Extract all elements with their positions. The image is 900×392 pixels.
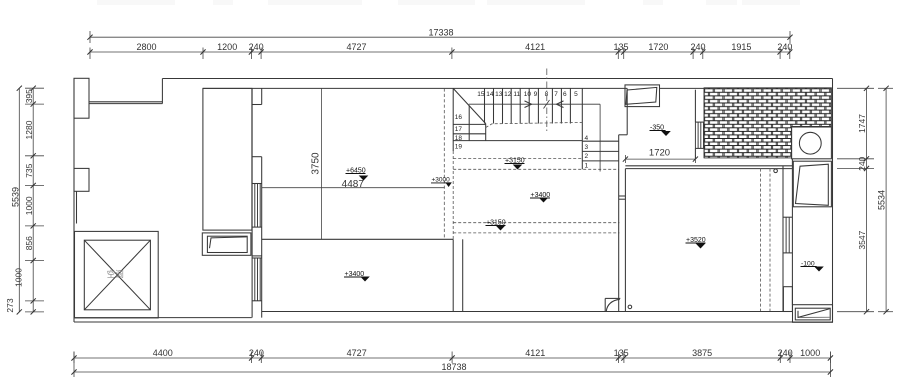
- svg-text:1720: 1720: [649, 148, 670, 159]
- dashed line hall 2: [453, 232, 619, 234]
- AC platform outer box: [75, 231, 159, 318]
- svg-text:4727: 4727: [347, 348, 367, 358]
- toilet window cap top: [695, 121, 703, 123]
- stair center dash-dot line: [546, 69, 548, 134]
- svg-text:18: 18: [455, 135, 463, 142]
- toilet window cap bottom: [695, 147, 703, 149]
- window box below closet outer: [202, 233, 251, 255]
- svg-text:1: 1: [585, 162, 589, 169]
- inner wall bottom left section: [74, 317, 252, 319]
- outer wall top: [162, 78, 832, 80]
- svg-text:4487: 4487: [342, 179, 365, 190]
- svg-text:240: 240: [249, 348, 264, 358]
- stair tread 16/17: [453, 123, 486, 125]
- AC platform diagonal 1: [84, 240, 150, 310]
- svg-text:3547: 3547: [857, 230, 867, 249]
- right window cap bottom: [783, 252, 792, 254]
- svg-text:1720: 1720: [648, 42, 668, 52]
- stair left col divider v1: [468, 106, 470, 141]
- interior wall y239: [262, 238, 454, 240]
- small circle marker upper: [774, 169, 778, 173]
- dim line overall left 5539: [18, 88, 20, 312]
- svg-text:9: 9: [534, 91, 538, 98]
- dim bottom segment ticks: [73, 352, 75, 364]
- stair direction line horizontal: [469, 103, 600, 105]
- dashed level line +3150 upper: [453, 158, 582, 160]
- stair direction arrowhead right-pointing: [525, 101, 532, 108]
- svg-text:3: 3: [585, 144, 589, 151]
- dim 1720 end stubs: [624, 155, 626, 163]
- svg-text:5: 5: [574, 91, 578, 98]
- svg-text:空调: 空调: [107, 269, 124, 279]
- svg-text:5539: 5539: [11, 187, 21, 207]
- svg-text:16: 16: [455, 114, 463, 121]
- stair left wall dashed part: [452, 151, 454, 239]
- svg-text:11: 11: [513, 91, 520, 98]
- stair direction break slash: [544, 100, 550, 109]
- svg-text:240: 240: [857, 156, 867, 170]
- wall 240 right edge seg2: [261, 157, 263, 318]
- interior dim line 3750 vertical: [320, 88, 322, 239]
- wall x618 long: [618, 135, 620, 312]
- toilet top window pane: [626, 87, 657, 104]
- svg-text:273: 273: [5, 298, 15, 312]
- toilet right wall lower: [694, 148, 696, 159]
- stair left wall upper solid: [452, 88, 454, 151]
- wall 240 left edge: [251, 88, 253, 317]
- stair left col divider v2: [485, 124, 487, 141]
- window top-left double line: [89, 101, 162, 103]
- flue cell box: [792, 127, 832, 159]
- toilet window sliding lines: [694, 122, 696, 148]
- door swing bottom of hall: [605, 297, 620, 299]
- wall 240 segment caps: [252, 156, 262, 158]
- svg-text:1000: 1000: [24, 196, 34, 215]
- dim left segment ticks: [25, 87, 44, 89]
- AC platform diagonal 2: [84, 240, 150, 310]
- interior dim line 4487 at y188: [262, 187, 445, 189]
- cap above lower sliding window: [252, 257, 262, 259]
- svg-text:135: 135: [614, 348, 629, 358]
- svg-text:135: 135: [613, 42, 628, 52]
- svg-text:4400: 4400: [153, 348, 173, 358]
- svg-text:10: 10: [524, 91, 532, 98]
- dim overall bottom end ticks: [73, 352, 75, 378]
- dim right segment ticks: [837, 87, 874, 89]
- window casement slant: [210, 237, 247, 248]
- svg-text:17338: 17338: [428, 27, 453, 37]
- svg-text:1000: 1000: [800, 348, 820, 358]
- dim line left segments: [32, 88, 34, 312]
- inner wall bottom right section: [262, 311, 793, 313]
- dim line overall top 17338: [90, 36, 790, 38]
- dim line overall right 5534: [885, 88, 887, 311]
- right window cap top: [783, 216, 792, 218]
- window left wall inner line: [76, 191, 78, 223]
- svg-text:5534: 5534: [877, 190, 887, 210]
- faint cropped title text row: [97, 0, 175, 5]
- wall line y166: [625, 165, 792, 167]
- AC platform inner box: [84, 240, 150, 310]
- step block lower right: [783, 287, 792, 312]
- svg-text:1747: 1747: [857, 114, 867, 133]
- svg-text:6: 6: [563, 91, 567, 98]
- dim line top segments: [90, 51, 790, 53]
- bottom-right door box inner: [795, 308, 830, 320]
- toilet right wall upper: [694, 90, 696, 122]
- wall notch line 1: [619, 195, 626, 197]
- svg-text:3750: 3750: [311, 152, 322, 175]
- bottom-right door box outer: [793, 305, 833, 323]
- svg-text:4121: 4121: [525, 42, 545, 52]
- svg-text:7: 7: [554, 91, 558, 98]
- svg-text:2800: 2800: [136, 42, 156, 52]
- svg-text:240: 240: [777, 42, 792, 52]
- stair direction arrowhead left-pointing: [557, 101, 564, 108]
- svg-text:13: 13: [495, 91, 503, 98]
- svg-text:4121: 4121: [525, 348, 545, 358]
- svg-text:17: 17: [455, 126, 463, 133]
- stair risers top run: [484, 88, 486, 123]
- stair diagonal cut: [453, 88, 486, 123]
- wall band x462 lower: [462, 239, 464, 311]
- wall x783: [782, 166, 784, 312]
- dim overall top end ticks: [89, 31, 91, 43]
- outer wall right: [832, 79, 834, 323]
- svg-text:395: 395: [24, 89, 34, 103]
- stair tread 18/19 long: [453, 140, 582, 142]
- outer wall left: [73, 78, 75, 322]
- bottom-right door leaf slant: [798, 309, 830, 318]
- svg-text:735: 735: [24, 163, 34, 177]
- outer wall bottom: [74, 321, 833, 323]
- flue circle: [799, 132, 821, 154]
- dashed line hall 1: [453, 222, 619, 224]
- notch cap under 240 wall: [252, 104, 262, 106]
- toilet top window outer box: [625, 85, 660, 107]
- wall jog y135: [619, 134, 628, 136]
- wall 240 right edge seg1: [261, 88, 263, 104]
- svg-text:240: 240: [249, 42, 264, 52]
- right door leaf: [796, 164, 829, 205]
- wall x627 upper: [626, 88, 628, 134]
- stair left wall lower solid: [452, 239, 454, 311]
- svg-text:19: 19: [455, 144, 463, 151]
- svg-text:240: 240: [778, 348, 793, 358]
- right wall sliding window: [785, 217, 787, 253]
- dim line bottom segments: [74, 357, 830, 359]
- wall x792: [791, 159, 793, 305]
- wall notch line 2: [619, 198, 626, 200]
- inner wall top face right of toilet window: [660, 87, 705, 89]
- wall line y169: [625, 168, 792, 170]
- right door box outer: [793, 161, 831, 207]
- sliding window upper in 240 wall: [254, 184, 256, 228]
- pillar top-left: [74, 78, 89, 118]
- wardrobe dashed line 1: [760, 169, 762, 312]
- svg-text:1280: 1280: [24, 120, 34, 139]
- pillar mid-left: [74, 168, 89, 191]
- wall jog top-left vertical: [161, 79, 163, 104]
- svg-text:15: 15: [477, 91, 485, 98]
- svg-text:3875: 3875: [692, 348, 712, 358]
- stair direction line vertical: [599, 104, 601, 171]
- stair right col treads: [582, 140, 618, 142]
- stair right edge x582: [581, 88, 583, 169]
- inner wall top face: [203, 87, 627, 89]
- brick left edge: [703, 88, 705, 158]
- svg-text:4: 4: [585, 135, 589, 142]
- svg-text:2: 2: [585, 153, 589, 160]
- brick hatch wall region: [704, 88, 831, 158]
- svg-text:240: 240: [690, 42, 705, 52]
- closet block wall: [203, 88, 252, 230]
- svg-text:856: 856: [24, 236, 34, 250]
- svg-text:1200: 1200: [217, 42, 237, 52]
- window box below closet inner: [207, 236, 247, 252]
- dashed line above void: [443, 88, 445, 239]
- sliding window lower in 240 wall: [254, 258, 256, 301]
- svg-text:4727: 4727: [346, 42, 366, 52]
- dim line right segments: [866, 88, 868, 311]
- stair break line dashed: [486, 122, 583, 127]
- dim line overall bottom 18738: [74, 371, 830, 373]
- wall x625: [624, 169, 626, 312]
- svg-text:1915: 1915: [731, 42, 751, 52]
- wardrobe dashed line 2: [769, 169, 771, 312]
- small circle marker lower: [628, 305, 632, 309]
- dim line 1720: [625, 158, 695, 160]
- svg-text:12: 12: [504, 91, 512, 98]
- dim right overall end ticks: [878, 87, 893, 89]
- dim top segment ticks: [89, 48, 91, 60]
- stair tread 17/18: [453, 133, 486, 135]
- svg-text:18738: 18738: [441, 362, 466, 372]
- svg-text:14: 14: [486, 91, 494, 98]
- dashed line below stairs: [453, 168, 619, 170]
- svg-text:1000: 1000: [14, 268, 24, 287]
